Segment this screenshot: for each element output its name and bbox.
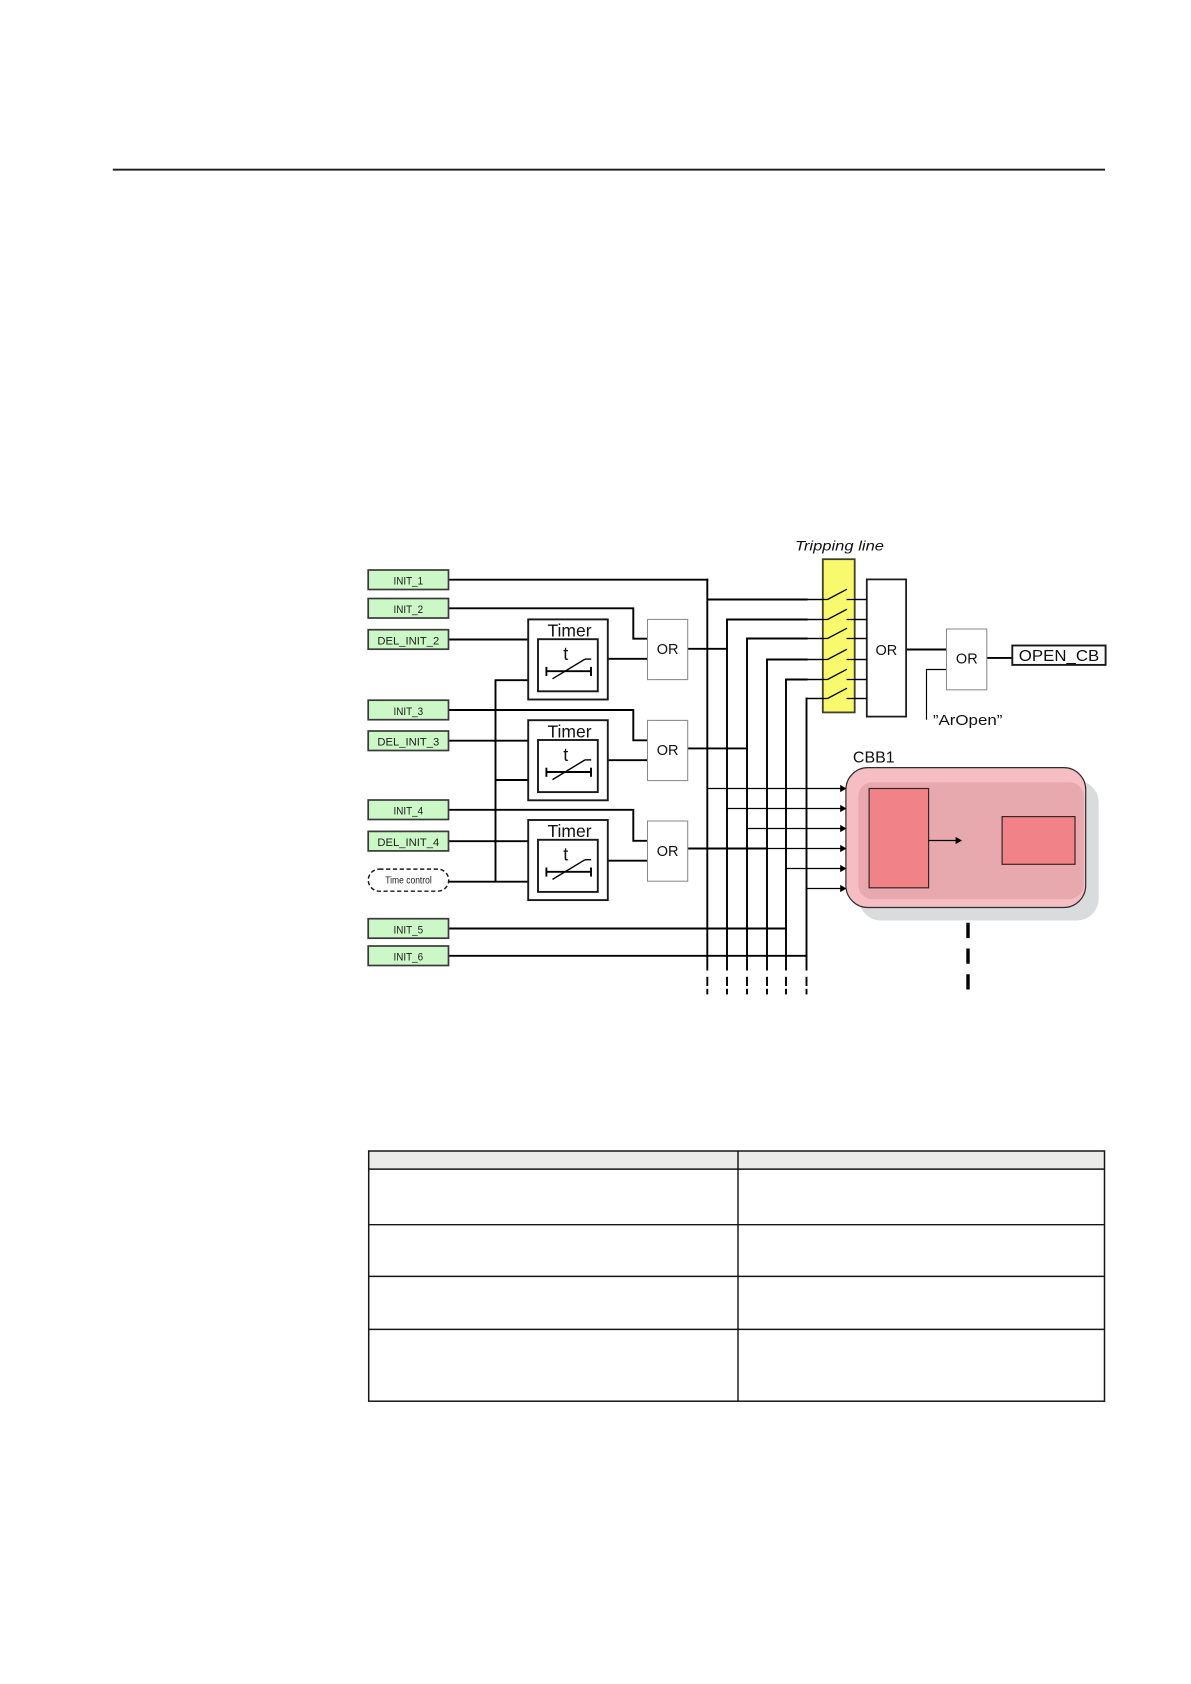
svg-text:DEL_INIT_4: DEL_INIT_4	[377, 837, 439, 849]
svg-text:Tripping line: Tripping line	[795, 538, 884, 554]
svg-text:INIT_3: INIT_3	[394, 706, 424, 718]
svg-text:INIT_4: INIT_4	[394, 806, 424, 818]
svg-text:CBB1: CBB1	[853, 750, 895, 767]
svg-text:OR: OR	[876, 643, 898, 659]
svg-text:Timer: Timer	[547, 621, 591, 641]
svg-text:OR: OR	[657, 844, 679, 860]
svg-text:INIT_2: INIT_2	[394, 604, 424, 616]
svg-text:OR: OR	[657, 743, 679, 759]
svg-text:INIT_5: INIT_5	[394, 924, 424, 936]
svg-text:OPEN_CB: OPEN_CB	[1019, 648, 1099, 665]
svg-text:OR: OR	[956, 651, 978, 667]
svg-text:Time control: Time control	[385, 876, 432, 887]
svg-text:INIT_1: INIT_1	[394, 576, 424, 588]
svg-text:DEL_INIT_3: DEL_INIT_3	[377, 737, 439, 749]
svg-text:OR: OR	[657, 642, 679, 658]
svg-text:t: t	[563, 644, 568, 664]
svg-text:DEL_INIT_2: DEL_INIT_2	[377, 635, 439, 647]
svg-text:INIT_6: INIT_6	[394, 952, 424, 964]
svg-text:”ArOpen”: ”ArOpen”	[933, 713, 1003, 729]
